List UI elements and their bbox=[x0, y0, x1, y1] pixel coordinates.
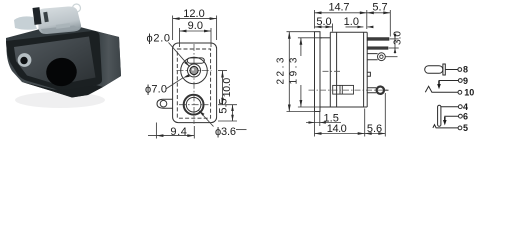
ear hole bbox=[160, 100, 167, 107]
dim 5.5 line bbox=[232, 105, 234, 121]
jack front face bezel bbox=[6, 31, 102, 90]
extension line at body bottom right bbox=[218, 120, 237, 122]
arrows 14.0 bbox=[315, 132, 322, 135]
svg-text:10: 10 bbox=[464, 88, 474, 98]
dim 5.7 right extension bbox=[389, 10, 391, 37]
spring contact and wire terminal 10 bbox=[425, 86, 458, 92]
dim 14.7 line bbox=[315, 12, 367, 14]
arrows 12.0 bbox=[173, 17, 180, 20]
dim 5.6 right extension bbox=[384, 93, 386, 137]
flange plate bbox=[315, 32, 321, 112]
dim 12.0 line bbox=[173, 18, 217, 20]
svg-text:9.4: 9.4 bbox=[170, 126, 187, 138]
svg-text:22.3: 22.3 bbox=[276, 57, 287, 84]
terminal circle 8 bbox=[458, 68, 462, 72]
front view inner cavity dashed outline bbox=[177, 49, 210, 118]
leader phi7.0 bbox=[167, 78, 184, 89]
terminal circle 10 bbox=[458, 90, 462, 94]
rib right line bbox=[336, 32, 338, 107]
middle terminal extension bbox=[385, 56, 397, 58]
dim 1.5 extensions bbox=[314, 112, 316, 137]
sleeve bar symbol bbox=[438, 105, 441, 126]
moving contact arrow 6 bbox=[443, 120, 447, 125]
keyway slot in barrel bbox=[187, 58, 204, 63]
dim 10.0 line bbox=[222, 71, 224, 105]
svg-text:4: 4 bbox=[463, 102, 468, 112]
arrows 3.0 bbox=[394, 34, 397, 39]
jack body bottom face bbox=[22, 82, 103, 98]
dim 5.6 line bbox=[365, 133, 386, 135]
small step on back bbox=[367, 72, 370, 76]
lower lug eyelet bbox=[377, 87, 384, 94]
svg-text:14.7: 14.7 bbox=[329, 2, 350, 14]
dim 9.4 line bbox=[148, 135, 194, 137]
dim 5.0 right extension bbox=[332, 24, 334, 32]
back plate right line bbox=[366, 32, 368, 107]
dim 14.0 line bbox=[315, 133, 365, 135]
dim 9.0 extension lines bbox=[179, 28, 181, 47]
arrows 10.0 bbox=[221, 71, 224, 78]
svg-text:5.5: 5.5 bbox=[217, 98, 229, 113]
arrows 5.5 bbox=[231, 105, 234, 111]
dim 19.3 bottom extension bbox=[298, 106, 320, 108]
arrow phi7.0 bbox=[183, 74, 190, 78]
svg-text:ϕ3.6: ϕ3.6 bbox=[215, 126, 236, 138]
arrows 9.4 bbox=[156, 134, 163, 137]
center pin collar bbox=[188, 64, 201, 77]
svg-text:9: 9 bbox=[463, 76, 468, 86]
dim 19.3 line bbox=[300, 38, 302, 56]
wire to terminal 8 bbox=[445, 69, 458, 71]
dim 22.3 top extension bbox=[287, 31, 315, 33]
arrows 5.6 bbox=[365, 132, 372, 135]
arrows 5.7 bbox=[367, 11, 374, 14]
terminal circle 5 bbox=[458, 126, 462, 130]
photo soft reflection under body bbox=[15, 92, 105, 108]
arrow phi3.6 bbox=[199, 111, 205, 116]
svg-text:5.0: 5.0 bbox=[316, 16, 331, 28]
dim 14.0 right extension bbox=[364, 109, 366, 137]
dim 9.0 line bbox=[180, 30, 212, 32]
plug symbol flange bar bbox=[443, 64, 445, 75]
mounting ear on left bbox=[157, 99, 173, 108]
lower eyelet tail bbox=[384, 89, 389, 91]
svg-text:14.0: 14.0 bbox=[327, 123, 347, 135]
photo: DC jack pictorial view bbox=[6, 4, 121, 108]
vertical centerline bbox=[193, 44, 195, 124]
terminal circle 6 bbox=[459, 114, 463, 118]
arrows 9.0 bbox=[180, 30, 187, 33]
svg-text:ϕ2.0: ϕ2.0 bbox=[147, 33, 171, 45]
jack body silhouette (top face color) bbox=[6, 27, 121, 98]
lug centerline bbox=[309, 89, 390, 91]
small hole metal ring bbox=[18, 53, 32, 67]
jack body right side face bbox=[96, 32, 121, 88]
extension line at lower hole center bbox=[218, 104, 237, 106]
extension line at barrel center bbox=[218, 70, 227, 72]
dim 22.3 bottom extension bbox=[287, 111, 320, 113]
neck top edge bbox=[320, 37, 330, 39]
arrows 14.7 bbox=[315, 11, 322, 14]
middle terminal eyelet bbox=[378, 53, 386, 61]
svg-text:8: 8 bbox=[463, 65, 468, 75]
dim 3.0 extensions bbox=[390, 38, 399, 40]
back plate left line bbox=[363, 32, 365, 107]
dim 5.7 line bbox=[367, 12, 391, 14]
plug symbol barrel bbox=[425, 66, 443, 74]
leader phi2.0 bbox=[169, 43, 190, 67]
dim 19.3 top extension bbox=[298, 37, 322, 39]
svg-text:6: 6 bbox=[463, 111, 468, 121]
center pin phi2 bbox=[190, 66, 198, 74]
lower hole inner bbox=[186, 97, 201, 112]
svg-text:5.6: 5.6 bbox=[367, 123, 382, 135]
wire terminal 4 bbox=[441, 106, 458, 108]
svg-text:5: 5 bbox=[463, 123, 468, 133]
wire terminal 9 bbox=[439, 81, 458, 84]
pin highlight bbox=[192, 68, 194, 70]
dim 1.0 right tail bbox=[367, 26, 372, 28]
metal contact faint rear part bbox=[14, 16, 37, 29]
dim 5.0 line bbox=[315, 26, 333, 28]
lower hole phi3.6 outer bbox=[184, 95, 204, 115]
arrows 1.0 bbox=[357, 26, 363, 29]
arrows 22.3 bbox=[288, 32, 291, 39]
leader phi3.6 bbox=[199, 111, 214, 127]
arrow phi2.0 bbox=[184, 61, 190, 67]
dim 9.4 extension left (ear) bbox=[155, 123, 157, 139]
arrows 1.5 bbox=[309, 121, 315, 124]
spring contact and wire terminal 5 bbox=[433, 125, 458, 128]
horizontal centerline of barrel bbox=[177, 70, 212, 72]
terminal circle 9 bbox=[458, 79, 462, 83]
barrel hole phi7 bbox=[181, 57, 208, 84]
dim 14.7 extensions bbox=[314, 10, 316, 29]
middle terminal lug bbox=[367, 54, 377, 60]
dim 1.0 left tail bbox=[346, 26, 364, 28]
arrows 19.3 bbox=[300, 38, 303, 45]
dim 9.4 extension right (centerline) bbox=[193, 126, 195, 139]
moving contact arrow 9 bbox=[437, 84, 441, 89]
terminal circle 4 bbox=[458, 105, 462, 109]
front view body outline bbox=[173, 43, 217, 123]
svg-text:1.0: 1.0 bbox=[344, 16, 359, 28]
svg-text:5.7: 5.7 bbox=[372, 2, 387, 14]
internal contact box (hidden detail) bbox=[333, 85, 354, 94]
metal contact assembly on top bbox=[32, 4, 81, 34]
arrows 5.0 bbox=[315, 26, 322, 29]
axis centerline bbox=[323, 70, 341, 72]
dim 22.3 line bbox=[288, 32, 290, 112]
dim 3.0 line with tails bbox=[394, 34, 396, 54]
svg-text:9.0: 9.0 bbox=[188, 20, 203, 32]
svg-text:10.0: 10.0 bbox=[221, 78, 233, 98]
svg-text:ϕ7.0: ϕ7.0 bbox=[145, 83, 167, 95]
jack front face inner bbox=[14, 37, 96, 84]
svg-text:19.3: 19.3 bbox=[288, 57, 299, 84]
body bottom edge bbox=[320, 106, 367, 108]
horizontal centerline of lower hole bbox=[179, 104, 209, 106]
svg-text:12.0: 12.0 bbox=[183, 8, 204, 20]
second pin bbox=[367, 47, 388, 50]
rib left line bbox=[329, 32, 331, 107]
wire terminal 6 bbox=[445, 116, 459, 119]
dim 1.5 line bbox=[306, 122, 341, 124]
leader phi3.6 tail bbox=[236, 129, 247, 131]
body top edge bbox=[330, 31, 367, 33]
svg-text:3.0: 3.0 bbox=[393, 31, 404, 45]
large hole bbox=[44, 56, 78, 88]
dim 12.0 extension lines bbox=[172, 16, 174, 41]
top pin bbox=[367, 38, 389, 41]
lower lug bbox=[367, 88, 376, 93]
